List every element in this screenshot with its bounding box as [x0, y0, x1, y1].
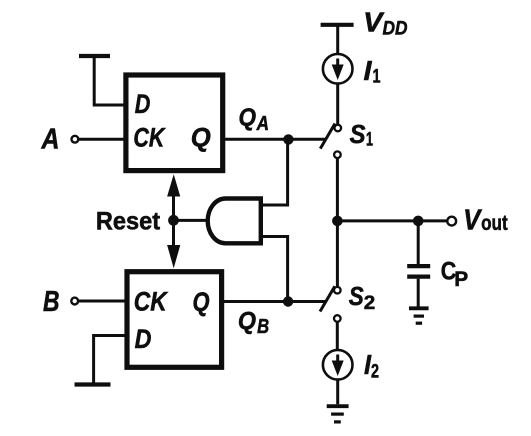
svg-text:B: B: [43, 286, 60, 318]
svg-text:1: 1: [373, 67, 381, 88]
svg-text:B: B: [257, 316, 269, 338]
svg-text:A: A: [256, 113, 269, 135]
svg-text:Q: Q: [238, 307, 257, 335]
svg-text:CK: CK: [133, 123, 166, 153]
svg-text:I: I: [364, 55, 373, 86]
svg-text:Q: Q: [193, 287, 210, 317]
svg-text:DD: DD: [383, 18, 408, 39]
svg-text:CK: CK: [134, 287, 169, 317]
svg-text:V: V: [463, 204, 483, 236]
svg-text:S: S: [349, 281, 365, 311]
svg-text:Reset: Reset: [96, 208, 161, 236]
svg-text:D: D: [135, 89, 151, 119]
svg-text:2: 2: [371, 361, 379, 382]
svg-text:D: D: [135, 324, 152, 354]
svg-text:out: out: [481, 212, 508, 235]
svg-text:Q: Q: [239, 104, 257, 132]
svg-text:A: A: [41, 124, 60, 156]
svg-text:S: S: [350, 119, 367, 149]
svg-text:P: P: [454, 268, 468, 291]
svg-text:Q: Q: [191, 123, 211, 153]
svg-text:1: 1: [366, 130, 373, 151]
svg-text:2: 2: [364, 293, 376, 314]
